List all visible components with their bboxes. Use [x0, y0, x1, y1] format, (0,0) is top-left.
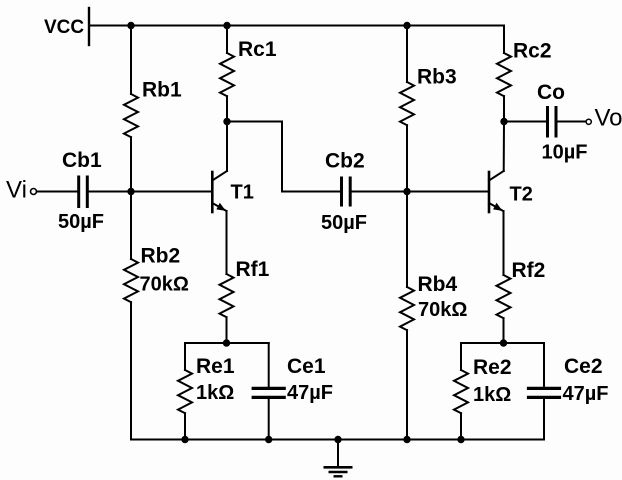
wire Rf2 bottom to emitter node — [503, 318, 505, 343]
node Rf1 / Re1-Ce1 junction — [223, 339, 230, 346]
wire Cb2 to T2 base — [352, 191, 488, 193]
svg-text:47µF: 47µF — [563, 383, 609, 405]
wire Cb1 to T1 base — [89, 191, 211, 193]
wire Ce1 bottom to ground rail — [268, 399, 270, 440]
ground — [324, 440, 353, 477]
wire Rb1 bottom to input node — [130, 137, 132, 191]
node bias Rb3-Rb4 junction — [403, 188, 410, 195]
capacitor Ce1 — [253, 388, 284, 397]
resistor Rf2 — [497, 275, 511, 318]
svg-text:Ce2: Ce2 — [564, 355, 603, 378]
wire Re2 top lead — [460, 343, 462, 370]
svg-text:Rb3: Rb3 — [417, 66, 457, 89]
wire bias node to Rb4 — [406, 192, 408, 288]
node ground rail / ground junction — [334, 436, 341, 443]
svg-text:Vi: Vi — [6, 177, 27, 204]
wire Re2 Ce2 top bar — [461, 342, 544, 344]
wire top VCC rail — [89, 25, 504, 27]
svg-text:Rb1: Rb1 — [142, 79, 182, 102]
wire collector node to Cb2 (right, down, right) — [227, 122, 340, 192]
wire Ce2 top lead — [543, 343, 545, 387]
svg-text:Vo: Vo — [595, 105, 622, 132]
resistor Rc1 — [220, 53, 234, 96]
capacitor Ce2 — [529, 388, 560, 397]
resistor Rb4 — [400, 287, 414, 330]
wire input node to Rb2 — [130, 192, 132, 260]
svg-text:Rf2: Rf2 — [512, 259, 546, 282]
resistor Re1 — [178, 370, 192, 413]
svg-text:1kΩ: 1kΩ — [473, 384, 511, 406]
wire Rb3 column top (rail to Rb3) — [406, 26, 408, 83]
svg-text:Cb1: Cb1 — [62, 149, 102, 172]
wire Rb2 bottom to ground rail — [130, 302, 132, 439]
svg-text:Cb2: Cb2 — [325, 150, 365, 173]
svg-text:VCC: VCC — [44, 17, 84, 38]
wire Co to Vo terminal — [558, 121, 586, 123]
capacitor Co — [548, 108, 557, 137]
wire Ce1 top lead — [268, 343, 270, 387]
svg-text:Rc1: Rc1 — [238, 38, 277, 61]
resistor Rb3 — [400, 82, 414, 125]
resistor Rb2 — [124, 259, 138, 302]
resistor Re2 — [454, 370, 468, 413]
wire T1 emitter to Rf1 — [226, 211, 228, 274]
node ground rail / Rb4 junction — [403, 436, 410, 443]
transistor T2 — [489, 171, 504, 212]
svg-text:10µF: 10µF — [542, 142, 588, 164]
svg-text:Rb4: Rb4 — [418, 273, 458, 296]
svg-text:47µF: 47µF — [287, 382, 333, 404]
resistor Rc2 — [497, 53, 511, 96]
node ground rail / Re2 junction — [457, 436, 464, 443]
svg-text:T1: T1 — [231, 181, 254, 203]
wire Rb1 column top (rail to Rb1) — [130, 26, 132, 95]
capacitor Cb2 — [342, 178, 351, 205]
svg-text:70kΩ: 70kΩ — [418, 299, 467, 321]
wire bottom ground rail — [131, 439, 544, 441]
wire Re1 bottom to ground rail — [184, 413, 186, 439]
svg-text:Rb2: Rb2 — [141, 245, 181, 268]
transistor T1 — [212, 171, 227, 212]
node T2 collector output junction — [500, 118, 507, 125]
svg-text:50µF: 50µF — [58, 211, 104, 233]
VCC terminal bar — [88, 8, 90, 45]
svg-text:Re1: Re1 — [196, 355, 235, 378]
terminal Vi open circle — [31, 189, 37, 195]
terminal Vo open circle — [586, 119, 591, 124]
svg-text:Ce1: Ce1 — [287, 355, 326, 378]
wire Rc1 column top (rail to Rc1) — [226, 26, 228, 54]
wire Re1 Ce1 top bar — [185, 342, 269, 344]
svg-text:T2: T2 — [510, 183, 533, 205]
wire Re2 bottom to ground rail — [460, 413, 462, 439]
resistor Rb1 — [124, 94, 138, 137]
svg-text:Rf1: Rf1 — [236, 258, 270, 281]
wire Rc2 bottom to output collector node — [503, 96, 505, 121]
node top rail / Rb3 junction — [403, 22, 410, 29]
wire T1 collector to node — [226, 122, 228, 172]
wire Vi to Cb1 — [37, 191, 77, 193]
node T1 collector junction — [223, 118, 230, 125]
wire Ce2 bottom to ground rail corner — [543, 399, 545, 440]
wire T2 collector to output node — [503, 122, 505, 172]
wire output node to Co — [504, 121, 546, 123]
resistor Rf1 — [220, 274, 234, 317]
svg-text:70kΩ: 70kΩ — [140, 274, 189, 296]
node top rail / Rc1 junction — [223, 22, 230, 29]
wire Rc1 bottom to collector node — [226, 96, 228, 121]
svg-text:1kΩ: 1kΩ — [196, 382, 234, 404]
svg-text:Rc2: Rc2 — [513, 40, 552, 63]
node ground rail / Ce1 junction — [265, 436, 272, 443]
svg-text:50µF: 50µF — [321, 212, 367, 234]
wire Rf1 bottom to emitter node — [226, 317, 228, 343]
node top rail / Rb1 junction — [127, 22, 134, 29]
capacitor Cb1 — [79, 177, 88, 207]
wire T2 emitter to Rf2 — [503, 211, 505, 275]
wire Rb4 bottom to ground rail — [406, 330, 408, 439]
node input / Rb1-Rb2 junction — [127, 188, 134, 195]
wire Re1 top lead — [184, 343, 186, 370]
svg-text:Re2: Re2 — [473, 356, 512, 379]
svg-text:Co: Co — [537, 81, 565, 104]
wire Rc2 column top (rail corner to Rc2) — [503, 26, 505, 54]
node ground rail / Re1 junction — [181, 436, 188, 443]
wire Rb3 bottom to bias node — [406, 125, 408, 191]
node Rf2 / Re2-Ce2 junction — [500, 339, 507, 346]
